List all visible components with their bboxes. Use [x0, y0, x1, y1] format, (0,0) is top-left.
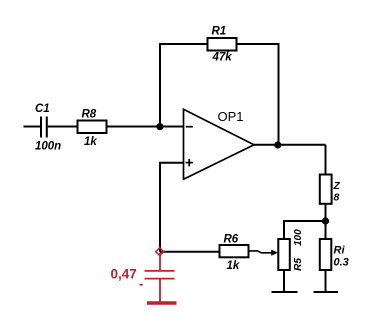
- wire red capacitor to red ground: [159, 280, 161, 302]
- svg-text:R1: R1: [212, 26, 227, 38]
- wire output down to Z: [325, 145, 327, 175]
- wire op-amp output: [254, 144, 326, 146]
- svg-text:C1: C1: [35, 103, 50, 115]
- capacitor C1: [35, 103, 61, 153]
- resistor R6 1k: [220, 234, 249, 273]
- op-amp OP1: [184, 109, 255, 179]
- wire Ri to ground: [325, 270, 327, 292]
- impedance Z 8: [320, 175, 341, 204]
- ground under Ri: [314, 291, 339, 293]
- wire feedback up: [160, 44, 208, 127]
- wire R6 to wiper arrow: [249, 251, 273, 253]
- wire input: [24, 126, 41, 128]
- wire junction to R6: [160, 251, 220, 253]
- svg-text:0.3: 0.3: [334, 256, 349, 268]
- svg-text:Z: Z: [333, 180, 341, 192]
- svg-text:OP1: OP1: [218, 109, 244, 124]
- svg-text:R8: R8: [82, 109, 97, 121]
- node plus junction (red diamond): [156, 248, 164, 256]
- capacitor 0,47 (red): [111, 253, 175, 286]
- svg-text:R6: R6: [224, 234, 239, 246]
- wire R1 to output vertical: [237, 44, 279, 145]
- ground under R5: [272, 291, 298, 293]
- wire junction left to R5: [284, 221, 326, 239]
- wire op-amp plus input down: [160, 163, 184, 252]
- wire R5 to ground: [283, 270, 285, 292]
- ground red: [147, 301, 177, 305]
- svg-text:1k: 1k: [84, 136, 97, 148]
- resistor Ri 0.3: [320, 239, 349, 270]
- node Z-bottom junction: [322, 217, 329, 224]
- svg-text:R5: R5: [293, 258, 304, 271]
- svg-text:Ri: Ri: [334, 245, 346, 257]
- svg-text:100n: 100n: [35, 141, 61, 153]
- svg-text:0,47: 0,47: [111, 267, 137, 282]
- wiper arrow into R5: [271, 250, 278, 256]
- svg-text:100: 100: [293, 229, 304, 246]
- node output junction: [274, 141, 281, 148]
- svg-text:1k: 1k: [227, 260, 240, 272]
- node minus-input junction: [156, 123, 163, 130]
- wire R8 to op-amp minus input: [107, 126, 184, 128]
- resistor R8 1k: [78, 109, 107, 149]
- potentiometer R5 100: [278, 229, 304, 271]
- wire C1 to R8: [48, 126, 78, 128]
- svg-text:8: 8: [334, 192, 340, 204]
- svg-text:47k: 47k: [212, 52, 233, 64]
- wire Z to junction: [325, 204, 327, 239]
- resistor R1 47k: [208, 26, 237, 64]
